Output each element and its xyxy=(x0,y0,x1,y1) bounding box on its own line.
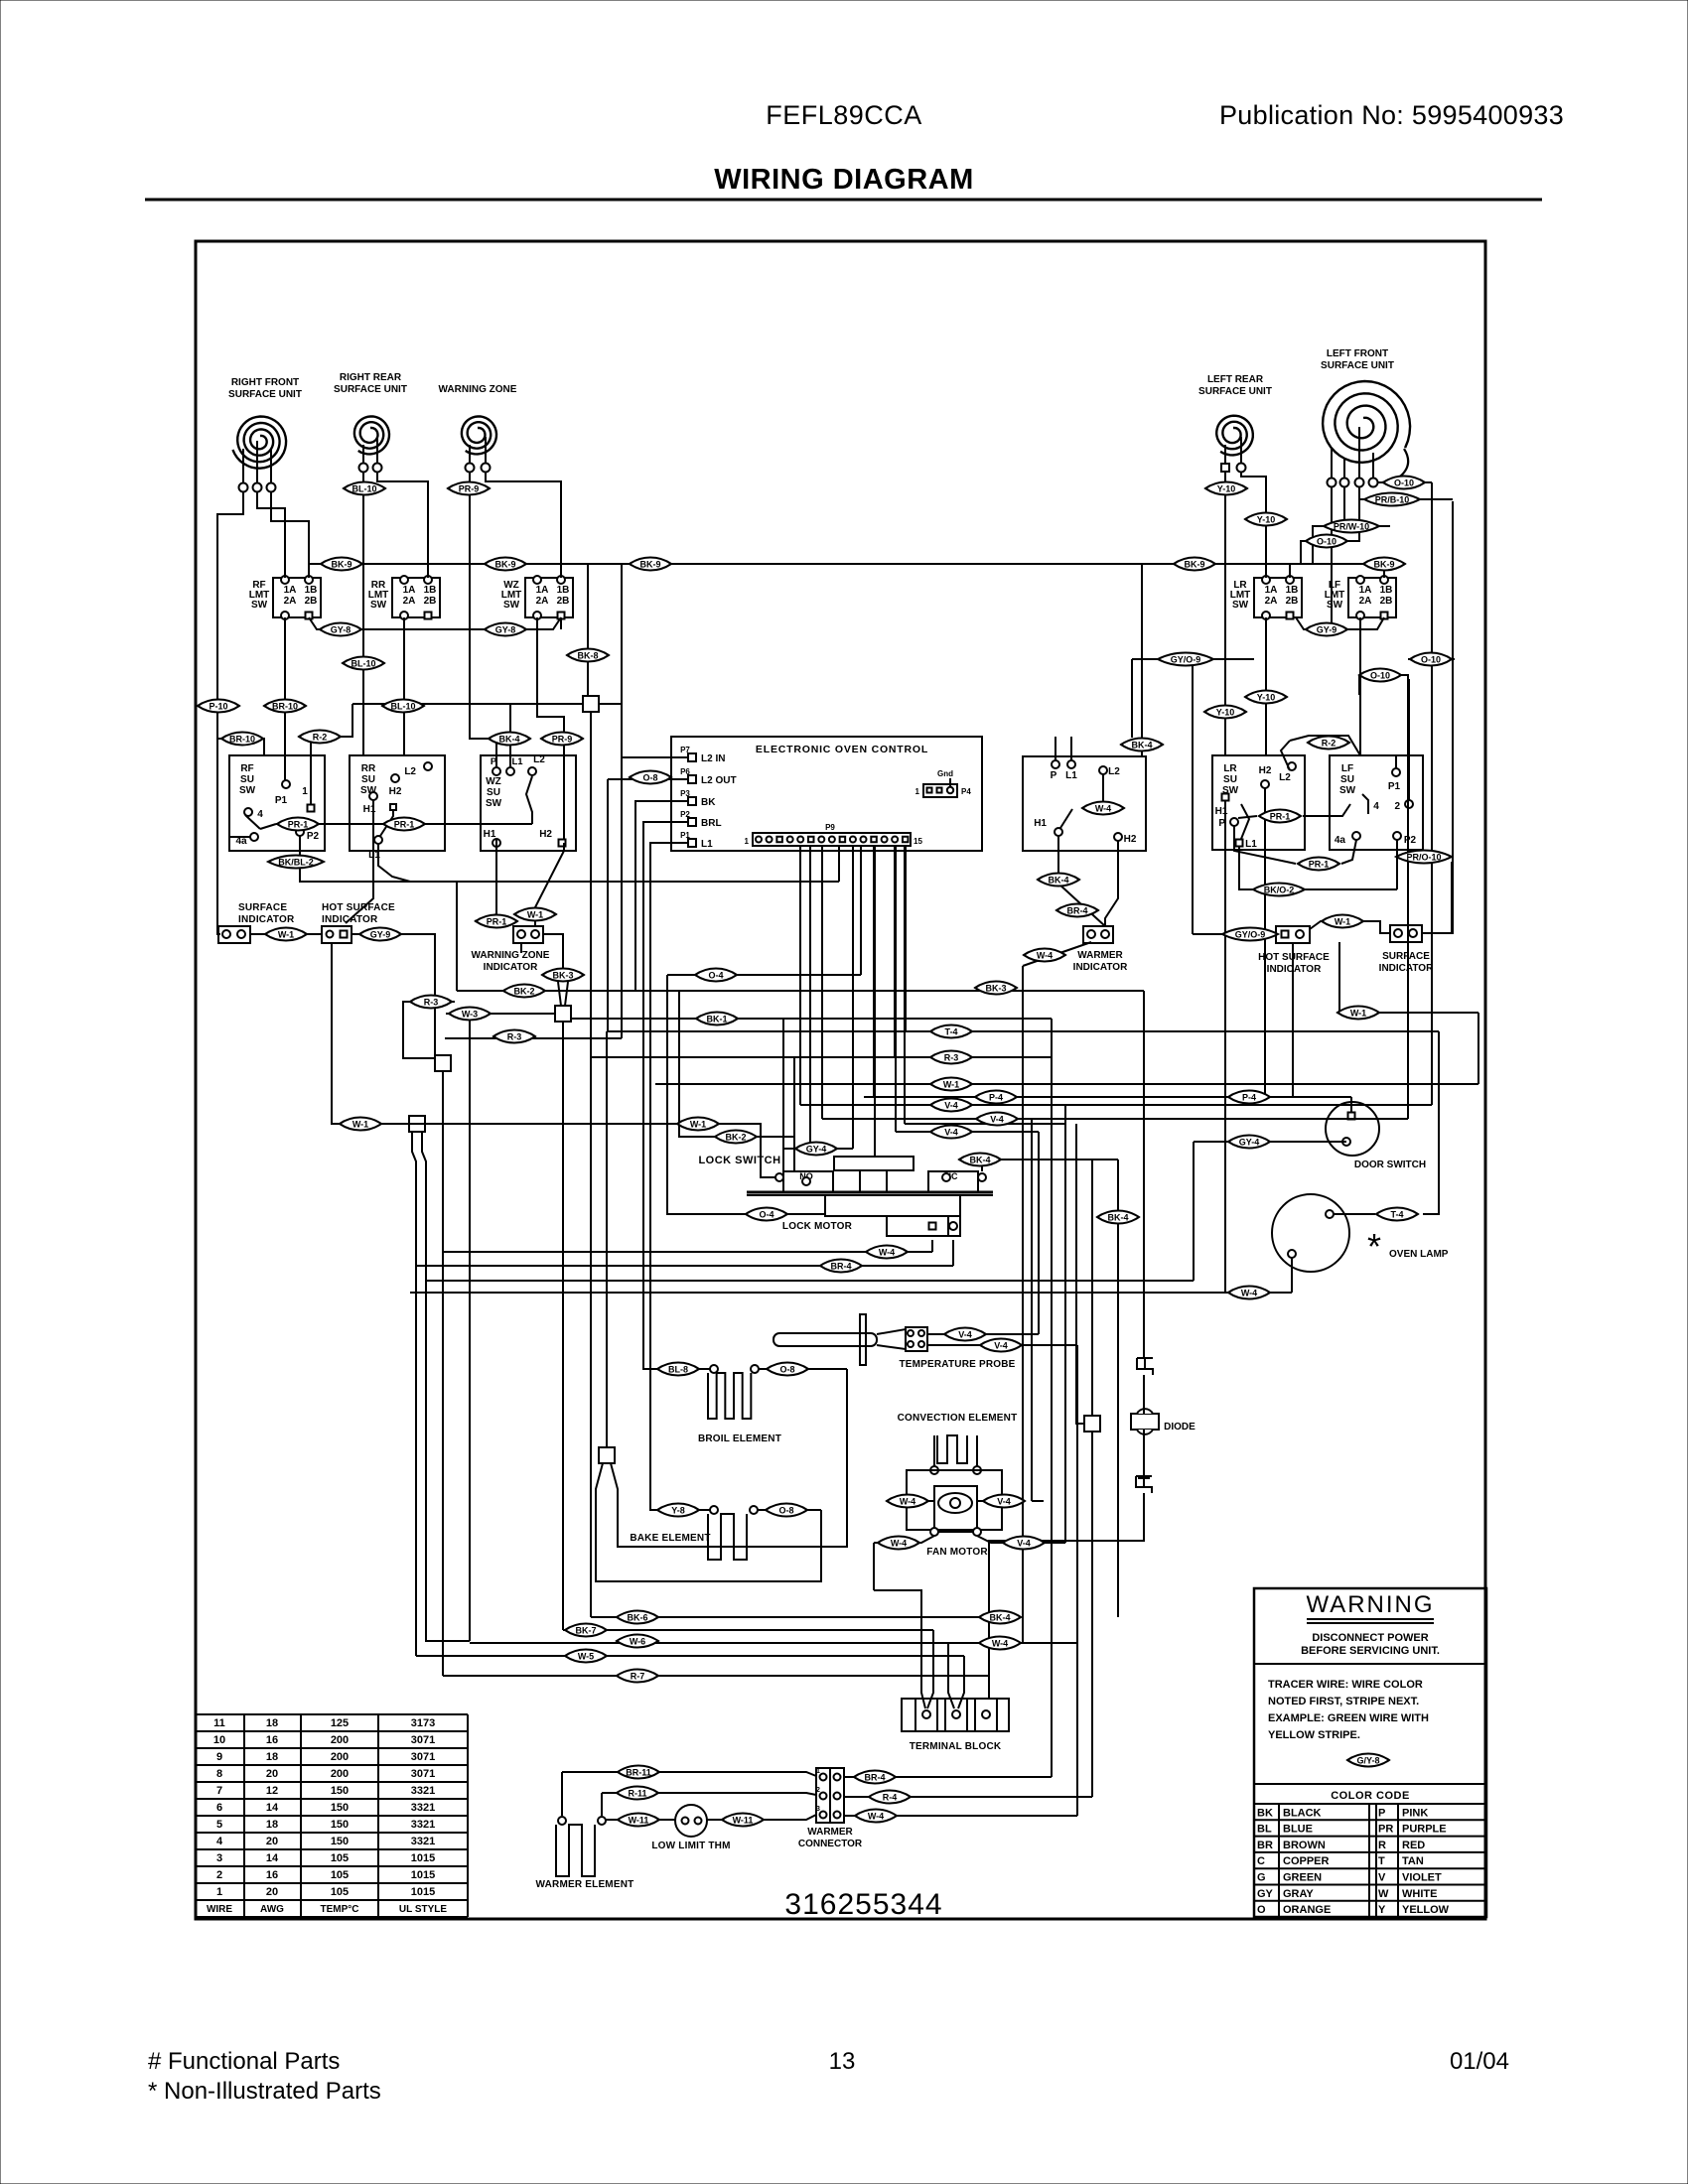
svg-text:SURFACE: SURFACE xyxy=(1382,951,1430,962)
svg-text:P6: P6 xyxy=(680,767,690,776)
svg-text:GY-4: GY-4 xyxy=(806,1145,827,1155)
svg-text:TEMP°C: TEMP°C xyxy=(321,1904,359,1915)
wire W-4 warmer connector to x1085 xyxy=(844,1815,1077,1817)
wire stub lr lmt 1A xyxy=(1289,564,1291,578)
wire lr coil lead left Y-10 vertical xyxy=(1224,472,1226,755)
svg-text:O-8: O-8 xyxy=(778,1506,793,1516)
svg-text:LF: LF xyxy=(1341,763,1353,774)
svg-text:4: 4 xyxy=(1373,801,1379,812)
wire V-4 bus y1113 xyxy=(800,1104,1432,1106)
wire lr su sw H2 down xyxy=(1264,788,1266,1097)
svg-text:WIRE: WIRE xyxy=(207,1904,232,1915)
svg-text:G/Y-8: G/Y-8 xyxy=(1356,1756,1379,1766)
svg-text:WARNING: WARNING xyxy=(1306,1591,1434,1618)
wire wz lmt 2A jog to wz su sw H2 xyxy=(537,617,564,839)
svg-text:GY-8: GY-8 xyxy=(495,625,516,635)
svg-text:W-1: W-1 xyxy=(278,930,294,940)
wire PR-1 rf lever to rr su sw xyxy=(276,823,377,825)
svg-text:FEFL89CCA: FEFL89CCA xyxy=(766,100,922,130)
wire R-3 right bus y1065 xyxy=(591,1056,1052,1058)
electronic oven control xyxy=(671,737,982,851)
title rule line xyxy=(145,199,1542,202)
wire warmer su sw BK-4 lead xyxy=(1141,564,1143,756)
wire R-11 to warmer connector xyxy=(602,1793,816,1795)
wire Y-10 y702 jog xyxy=(1246,696,1286,698)
wire lr lmt 2A down Y-10 xyxy=(1265,617,1267,755)
svg-text:1B: 1B xyxy=(557,585,570,596)
wire T-4 bus y1039 xyxy=(607,1030,1439,1032)
svg-text:L2: L2 xyxy=(533,754,545,765)
svg-text:H1: H1 xyxy=(1034,818,1047,829)
svg-text:W-1: W-1 xyxy=(352,1120,368,1130)
wire eoc P7 L2 IN to x626 xyxy=(622,756,688,758)
svg-text:3071: 3071 xyxy=(411,1751,435,1763)
terminals left rear coil xyxy=(1221,464,1229,472)
svg-text:1B: 1B xyxy=(424,585,437,596)
wire BK-2 to lock NO xyxy=(679,991,794,1171)
svg-text:SU: SU xyxy=(1223,774,1237,785)
svg-text:P3: P3 xyxy=(680,789,690,798)
wire BK-O-2 y896 xyxy=(1239,847,1253,889)
svg-text:15: 15 xyxy=(914,837,922,846)
svg-text:Publication No: 5995400933: Publication No: 5995400933 xyxy=(1219,100,1564,130)
inline connector below diode xyxy=(1136,1476,1152,1493)
svg-text:LOCK SWITCH: LOCK SWITCH xyxy=(698,1155,780,1166)
hot surface indicator right xyxy=(1276,926,1310,943)
coil left rear surface unit xyxy=(1216,416,1253,456)
warning box xyxy=(1254,1588,1486,1917)
wire oval G/Y-8 example xyxy=(1347,1754,1389,1767)
wire W-1 y928 to surface ind right xyxy=(1364,921,1390,933)
svg-text:W-4: W-4 xyxy=(1241,1289,1257,1298)
wire Y-10 y717 xyxy=(1205,711,1245,713)
svg-text:1: 1 xyxy=(915,787,920,796)
wire bus GY-9 right xyxy=(1296,617,1384,629)
svg-text:PR-1: PR-1 xyxy=(487,917,507,927)
wire BK-2 BK-3 bus y998 xyxy=(457,990,1144,992)
wire BK-4 lower y1629 right end riser xyxy=(1117,1160,1119,1617)
svg-text:NOTED FIRST, STRIPE NEXT.: NOTED FIRST, STRIPE NEXT. xyxy=(1268,1696,1419,1707)
svg-text:H2: H2 xyxy=(389,786,402,797)
wire rr lmt 2A down to rr su sw xyxy=(403,617,405,755)
wire lr su sw R-2 lever to lf xyxy=(1290,736,1360,755)
svg-text:W-4: W-4 xyxy=(900,1497,915,1507)
svg-text:4: 4 xyxy=(216,1836,223,1847)
svg-text:* Non-Illustrated Parts: * Non-Illustrated Parts xyxy=(148,2078,381,2105)
svg-text:YELLOW: YELLOW xyxy=(1402,1904,1450,1916)
svg-text:CONVECTION ELEMENT: CONVECTION ELEMENT xyxy=(898,1413,1018,1424)
svg-text:L1: L1 xyxy=(701,839,713,850)
wire oval PR-1 rf xyxy=(260,824,276,829)
svg-text:P1: P1 xyxy=(680,831,690,840)
svg-text:R-3: R-3 xyxy=(944,1053,959,1063)
wire oven lamp top terminal xyxy=(1334,1213,1375,1215)
wire terminal block feeds xyxy=(874,1590,925,1708)
wire O-10 y545 horizontal xyxy=(1301,540,1359,542)
svg-text:SURFACE: SURFACE xyxy=(238,902,287,913)
svg-text:16: 16 xyxy=(266,1869,278,1881)
svg-text:GY-9: GY-9 xyxy=(1317,625,1337,635)
wire R-7 turn right xyxy=(443,1675,989,1677)
svg-text:PR-1: PR-1 xyxy=(394,820,415,830)
wire stub lf lmt 1B x1394 xyxy=(1383,564,1385,578)
switch WZ SU SW xyxy=(481,755,576,851)
wire W-4 warmer ind diagonal xyxy=(1023,942,1091,966)
svg-text:W-3: W-3 xyxy=(462,1010,478,1020)
svg-text:1: 1 xyxy=(216,1886,222,1898)
wire PR-W-10 horizontal xyxy=(1313,525,1390,527)
wire rr su sw L1 down to bus xyxy=(378,844,410,882)
svg-text:V: V xyxy=(1378,1872,1386,1884)
wire O-10 x1442 oval segment y664 xyxy=(1408,658,1455,660)
wire wz coil lead right to wz lmt 1B xyxy=(486,472,561,564)
svg-text:W-11: W-11 xyxy=(733,1816,754,1826)
svg-text:BK-4: BK-4 xyxy=(1131,741,1152,751)
svg-text:BK-4: BK-4 xyxy=(1107,1213,1128,1223)
svg-text:H2: H2 xyxy=(1124,834,1137,845)
svg-text:BR-10: BR-10 xyxy=(229,735,255,745)
svg-text:GY-8: GY-8 xyxy=(331,625,352,635)
wire lf coil terminal 3 down O-10 y545 xyxy=(1301,486,1359,564)
wire junction B down x446 xyxy=(442,1071,444,1676)
svg-text:V-4: V-4 xyxy=(944,1128,958,1138)
svg-text:P1: P1 xyxy=(275,795,288,806)
svg-text:BK-8: BK-8 xyxy=(577,651,598,661)
svg-text:SURFACE UNIT: SURFACE UNIT xyxy=(334,384,407,395)
svg-text:O-8: O-8 xyxy=(642,773,657,783)
svg-text:P-4: P-4 xyxy=(1242,1093,1256,1103)
svg-text:WHITE: WHITE xyxy=(1402,1888,1437,1900)
wire warmer H1 down BK-4 xyxy=(1057,836,1059,884)
svg-text:Y-10: Y-10 xyxy=(1217,484,1236,494)
svg-text:RIGHT FRONT: RIGHT FRONT xyxy=(231,377,299,388)
wire lr su sw P to PR-1 y870 xyxy=(1234,826,1296,864)
svg-text:BROWN: BROWN xyxy=(1283,1840,1326,1851)
wire rr coil lead left vertical BL-10 xyxy=(362,472,364,755)
svg-text:1B: 1B xyxy=(305,585,318,596)
svg-text:2A: 2A xyxy=(536,596,549,607)
wire BK-3 vee into junction D xyxy=(558,982,561,1006)
wire junction F vertical x611 xyxy=(606,1031,608,1447)
svg-text:150: 150 xyxy=(331,1802,349,1814)
wire lf su sw P2 riser PR-O-10 xyxy=(1397,856,1403,858)
svg-text:PURPLE: PURPLE xyxy=(1402,1824,1447,1836)
svg-text:1A: 1A xyxy=(284,585,297,596)
wire PR-1 rr to wz box xyxy=(377,823,532,825)
wire V-4 riser x1039 to fan mid xyxy=(1031,1119,1033,1501)
wire bus BK-9 xyxy=(309,563,1384,565)
svg-text:VIOLET: VIOLET xyxy=(1402,1872,1442,1884)
svg-text:3: 3 xyxy=(816,1806,820,1813)
svg-text:Y-10: Y-10 xyxy=(1257,515,1276,525)
svg-text:2: 2 xyxy=(816,1787,820,1794)
svg-text:PR/W-10: PR/W-10 xyxy=(1334,522,1369,532)
wire lf lmt 2A down to lf su sw xyxy=(1359,617,1361,755)
wire eoc P1 L1 to bake xyxy=(650,843,710,1510)
svg-text:20: 20 xyxy=(266,1768,278,1780)
svg-text:INDICATOR: INDICATOR xyxy=(1073,962,1128,973)
wire W-5 turn right xyxy=(416,1655,964,1657)
wire warming zone ind to junction xyxy=(543,934,563,968)
svg-text:GREEN: GREEN xyxy=(1283,1872,1322,1884)
oven lamp xyxy=(1272,1194,1349,1272)
svg-text:SW: SW xyxy=(1327,600,1343,611)
wire junction F to bake loop xyxy=(596,1463,821,1581)
svg-text:BROIL ELEMENT: BROIL ELEMENT xyxy=(698,1433,781,1444)
wire W-1 right riser xyxy=(1477,1013,1479,1084)
svg-text:T-4: T-4 xyxy=(1390,1210,1403,1220)
wire lock motor bottom leads W-4 BR-4 xyxy=(931,1240,933,1252)
warmer indicator xyxy=(1083,926,1113,943)
svg-text:200: 200 xyxy=(331,1734,349,1746)
svg-text:P-4: P-4 xyxy=(989,1093,1003,1103)
svg-text:1: 1 xyxy=(745,837,750,846)
connector P4 xyxy=(923,784,957,797)
svg-text:BK-4: BK-4 xyxy=(1048,876,1068,886)
svg-text:PR-9: PR-9 xyxy=(459,484,480,494)
wire vertical x1418 O-10 xyxy=(1407,679,1409,1119)
coil warning zone xyxy=(462,417,496,455)
svg-text:18: 18 xyxy=(266,1751,278,1763)
svg-text:WARMER ELEMENT: WARMER ELEMENT xyxy=(536,1879,634,1890)
terminals right front coil xyxy=(239,483,248,492)
warmer element xyxy=(558,1817,566,1825)
svg-text:INDICATOR: INDICATOR xyxy=(1267,964,1322,975)
wire surface indicator left to W-1 to hot surface indicator xyxy=(250,933,322,935)
wire bus GY-8 left xyxy=(309,617,561,629)
svg-text:18: 18 xyxy=(266,1717,278,1729)
terminal block xyxy=(902,1699,1009,1731)
svg-text:Y: Y xyxy=(1378,1904,1386,1916)
wire hot surface right to W-1 oval y928 xyxy=(1310,921,1364,929)
svg-text:11: 11 xyxy=(213,1717,225,1729)
RR limit switch xyxy=(392,578,440,617)
svg-text:200: 200 xyxy=(331,1751,349,1763)
svg-text:W-4: W-4 xyxy=(1095,804,1111,814)
svg-text:12: 12 xyxy=(266,1785,278,1797)
svg-text:BAKE ELEMENT: BAKE ELEMENT xyxy=(630,1533,710,1544)
svg-text:BR-10: BR-10 xyxy=(272,702,298,712)
warmer connector xyxy=(816,1768,844,1823)
svg-text:16: 16 xyxy=(266,1734,278,1746)
wire V-4 bus y1140 to probe xyxy=(896,1131,1039,1133)
svg-text:TAN: TAN xyxy=(1402,1855,1424,1867)
svg-text:V-4: V-4 xyxy=(1017,1539,1031,1549)
svg-text:4: 4 xyxy=(257,809,263,820)
svg-text:BK/O-2: BK/O-2 xyxy=(1264,886,1295,895)
wire BK-7 turn to right xyxy=(563,1629,933,1631)
wire BK-1 bus y1026 xyxy=(571,1018,1052,1020)
fan motor xyxy=(907,1470,1002,1530)
svg-text:WZ: WZ xyxy=(486,776,501,787)
svg-text:GY-4: GY-4 xyxy=(1239,1138,1260,1148)
svg-text:O-10: O-10 xyxy=(1317,537,1336,547)
svg-text:GY: GY xyxy=(1257,1888,1274,1900)
svg-text:150: 150 xyxy=(331,1785,349,1797)
WZ limit switch xyxy=(525,578,573,617)
coil left front surface unit xyxy=(1323,381,1410,463)
svg-text:SU: SU xyxy=(1340,774,1354,785)
svg-text:6: 6 xyxy=(216,1802,222,1814)
svg-text:SW: SW xyxy=(503,600,520,611)
wire long vertical x567 xyxy=(562,1014,564,1630)
wire BR-4 warmer ind diagonal xyxy=(1058,884,1105,926)
svg-text:BK-3: BK-3 xyxy=(552,971,573,981)
svg-text:LOCK MOTOR: LOCK MOTOR xyxy=(782,1221,853,1232)
wire eoc P2 BRL to broil xyxy=(643,822,710,1369)
svg-text:BR-4: BR-4 xyxy=(864,1773,885,1783)
svg-text:13: 13 xyxy=(829,2048,856,2075)
wire bake element right lead O-8 xyxy=(758,1509,821,1511)
door switch xyxy=(1326,1102,1379,1156)
LR limit switch xyxy=(1254,578,1302,617)
wire W-6 W-4 bus y1655 xyxy=(470,1642,1077,1644)
wire O-4 to lock motor xyxy=(667,975,825,1214)
svg-text:125: 125 xyxy=(331,1717,349,1729)
svg-text:WARNING ZONE: WARNING ZONE xyxy=(439,384,517,395)
lock motor xyxy=(825,1195,960,1216)
svg-text:PR: PR xyxy=(1378,1824,1393,1836)
svg-text:P4: P4 xyxy=(961,787,971,796)
svg-text:O-4: O-4 xyxy=(759,1210,774,1220)
svg-text:BK-2: BK-2 xyxy=(725,1133,746,1143)
coil right rear surface unit xyxy=(354,417,389,455)
svg-text:LOW LIMIT THM: LOW LIMIT THM xyxy=(651,1841,730,1851)
wire O-10 right riser x1442 top xyxy=(1430,481,1432,483)
wire junction E x1100 xyxy=(1091,1160,1093,1416)
svg-text:L2: L2 xyxy=(1108,766,1120,777)
svg-text:BK-6: BK-6 xyxy=(627,1613,647,1623)
wire wz su sw H1 down to PR-1 indicator xyxy=(495,847,497,914)
wire vertical x1442 O-10 xyxy=(1431,482,1433,1105)
svg-text:V-4: V-4 xyxy=(997,1497,1011,1507)
svg-text:W-11: W-11 xyxy=(629,1816,649,1826)
svg-text:*: * xyxy=(1367,1226,1381,1267)
svg-text:HOT SURFACE: HOT SURFACE xyxy=(1258,952,1330,963)
svg-text:W-1: W-1 xyxy=(943,1080,959,1090)
svg-text:BR-11: BR-11 xyxy=(626,1768,651,1778)
svg-text:GRAY: GRAY xyxy=(1283,1888,1314,1900)
svg-text:W-1: W-1 xyxy=(690,1120,706,1130)
wire rr coil lead right to rr lmt 1A xyxy=(377,472,428,564)
RF limit switch xyxy=(273,578,321,617)
switch warmer SU SW xyxy=(1023,756,1146,851)
color code table xyxy=(1254,1783,1486,1785)
wire stub wz lmt 1B xyxy=(560,564,562,578)
wire V-4 y1132 right segment xyxy=(905,1123,1065,1125)
wire warmer H2 down to warmer indicator xyxy=(1105,841,1118,926)
svg-text:7: 7 xyxy=(216,1785,222,1797)
svg-text:01/04: 01/04 xyxy=(1450,2048,1509,2075)
wire PR-1 y822 to lf pin4 xyxy=(1303,804,1350,816)
wire W-4 long vertical x1030 xyxy=(1022,966,1024,1643)
wire V-4 riser x1073 to fan xyxy=(1064,1105,1066,1543)
svg-text:V-4: V-4 xyxy=(994,1341,1008,1351)
svg-text:W-5: W-5 xyxy=(578,1652,594,1662)
svg-text:SW: SW xyxy=(251,600,268,611)
svg-text:BK-4: BK-4 xyxy=(989,1613,1010,1623)
svg-text:18: 18 xyxy=(266,1819,278,1831)
svg-text:P2: P2 xyxy=(307,831,320,842)
svg-text:WIRING DIAGRAM: WIRING DIAGRAM xyxy=(714,164,974,196)
svg-text:4a: 4a xyxy=(1335,835,1346,846)
svg-text:P: P xyxy=(1051,770,1057,781)
svg-text:L1: L1 xyxy=(1065,770,1077,781)
svg-text:O-4: O-4 xyxy=(708,971,723,981)
wire wz coil lead left vertical PR-9 xyxy=(470,472,496,767)
wire O-10 y680 to x1418 xyxy=(1359,675,1408,679)
svg-text:SW: SW xyxy=(486,798,502,809)
svg-text:BLACK: BLACK xyxy=(1283,1807,1322,1819)
svg-text:P: P xyxy=(1378,1807,1385,1819)
wire convection riser right xyxy=(1001,1470,1003,1501)
wire rr su sw H1 lead to hot surface indicator xyxy=(346,800,373,923)
svg-text:LEFT REAR: LEFT REAR xyxy=(1207,374,1264,385)
svg-text:SW: SW xyxy=(370,600,387,611)
svg-text:DIODE: DIODE xyxy=(1164,1422,1196,1433)
svg-text:W-4: W-4 xyxy=(1037,951,1053,961)
svg-text:RR: RR xyxy=(361,763,376,774)
wire fan motor leads xyxy=(933,1435,935,1466)
svg-text:BR-4: BR-4 xyxy=(1066,906,1087,916)
svg-text:3321: 3321 xyxy=(411,1785,435,1797)
svg-text:P-10: P-10 xyxy=(209,702,227,712)
svg-text:UL STYLE: UL STYLE xyxy=(399,1904,447,1915)
svg-text:P2: P2 xyxy=(680,810,690,819)
svg-text:PINK: PINK xyxy=(1402,1807,1428,1819)
svg-text:GY/O-9: GY/O-9 xyxy=(1235,930,1266,940)
svg-text:1A: 1A xyxy=(403,585,416,596)
wire BR-4 warmer connector to x1059 xyxy=(844,1776,1052,1778)
wire GY-4 from P9 to lock switch xyxy=(852,845,854,1149)
wire V-4 bus y1127 center xyxy=(822,1118,1408,1120)
svg-text:RIGHT REAR: RIGHT REAR xyxy=(340,372,402,383)
wire W-3 horizontal y1021 xyxy=(446,1013,555,1015)
svg-text:R-4: R-4 xyxy=(883,1793,898,1803)
svg-text:O-10: O-10 xyxy=(1370,671,1390,681)
diagram border frame xyxy=(196,241,1485,1919)
wire rf lmt 2A down to rf su sw P1 xyxy=(284,617,286,780)
svg-text:P7: P7 xyxy=(680,746,690,754)
svg-text:1015: 1015 xyxy=(411,1852,435,1864)
svg-text:1A: 1A xyxy=(536,585,549,596)
wire BR-10 horizontal to box xyxy=(217,739,264,755)
wire vertical x1449 oven lamp T-4 xyxy=(1423,1031,1439,1214)
svg-text:BL: BL xyxy=(1257,1824,1272,1836)
svg-text:L2 IN: L2 IN xyxy=(701,753,725,764)
wire W-1 lock bus y1132 xyxy=(332,1124,775,1177)
wire warning zone indicator left leads xyxy=(475,839,496,921)
wire W-1 left horizontal xyxy=(332,1117,409,1124)
wire lf su sw P1 to R-2 xyxy=(1395,755,1397,768)
wire warmer element right lead to R-11 xyxy=(601,1793,603,1816)
svg-text:BK-9: BK-9 xyxy=(494,560,515,570)
wire wz lmt 2B to gy bus xyxy=(560,617,562,629)
low limit thermostat xyxy=(675,1805,707,1837)
junction square B xyxy=(435,1055,451,1071)
wire warmer element left lead to BR-11 xyxy=(561,1772,563,1816)
wire BK-4 bus y1168 xyxy=(982,1160,1118,1171)
svg-text:ORANGE: ORANGE xyxy=(1283,1904,1331,1916)
wire wz H2 down to warning zone indicator xyxy=(535,843,564,926)
svg-text:W-4: W-4 xyxy=(868,1812,884,1822)
svg-text:H2: H2 xyxy=(1259,765,1272,776)
wire lr coil lead right to lr lmt xyxy=(1241,472,1266,578)
svg-text:INDICATOR: INDICATOR xyxy=(238,914,295,925)
svg-text:RF: RF xyxy=(240,763,253,774)
svg-text:BL-10: BL-10 xyxy=(390,702,415,712)
svg-text:O-10: O-10 xyxy=(1421,655,1441,665)
